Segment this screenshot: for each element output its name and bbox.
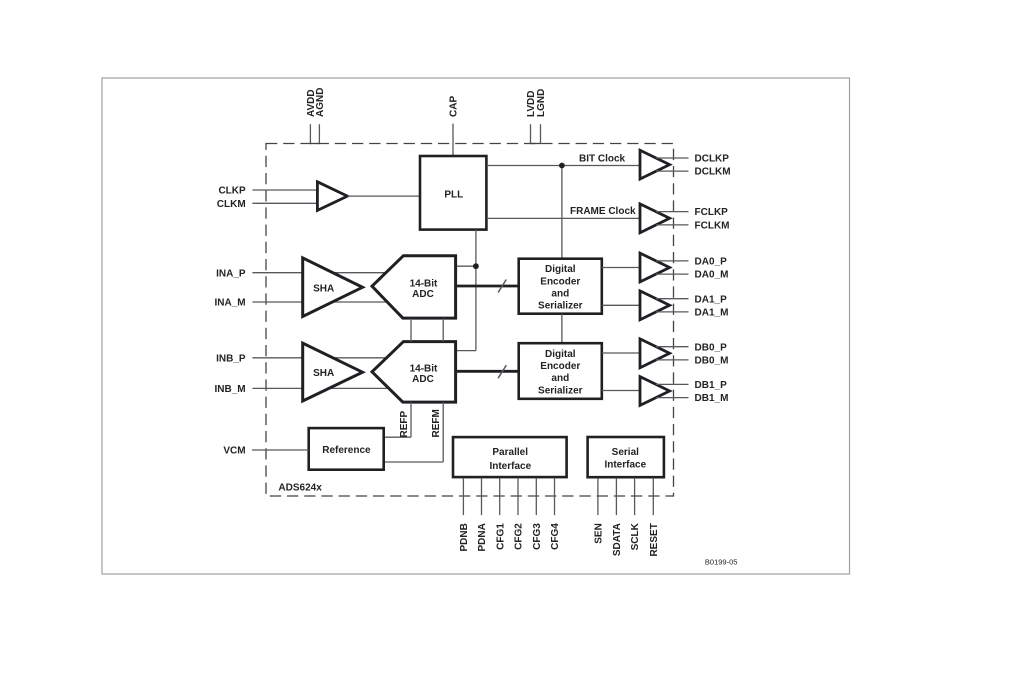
DCLK output buffer [640, 150, 670, 179]
wire DB0_M [656, 359, 689, 361]
svg-text:INB_P: INB_P [216, 353, 246, 364]
svg-text:DCLKM: DCLKM [695, 167, 731, 178]
svg-text:Serial: Serial [612, 447, 639, 458]
wire PLL to ADC clock (vertical) [475, 230, 477, 351]
pin CFG1 [499, 478, 501, 515]
PLL block [420, 156, 486, 230]
pin SDATA [615, 478, 617, 515]
wire DA0_P [656, 260, 689, 262]
wire SHA A to ADC A (p) [330, 272, 392, 274]
outer frame [102, 78, 850, 574]
svg-text:Digital: Digital [545, 264, 576, 275]
bus slash A [498, 280, 506, 293]
svg-text:DA1_M: DA1_M [695, 308, 729, 319]
net REFP rail (below ADC B) [410, 402, 412, 437]
wire buffer to PLL [347, 195, 420, 197]
net REFP rail (between ADCs) [410, 318, 412, 342]
wire encoder B to DB0 buffer [602, 352, 640, 354]
ADC A [372, 256, 456, 318]
ADC B [372, 342, 456, 403]
svg-text:DB0_M: DB0_M [695, 356, 729, 367]
wire SHA B to ADC B (p) [330, 357, 392, 359]
SHA A [303, 258, 363, 317]
svg-text:SEN: SEN [594, 523, 605, 544]
svg-text:PDNA: PDNA [477, 523, 488, 551]
svg-text:ADC: ADC [412, 374, 434, 385]
svg-text:INA_M: INA_M [214, 298, 245, 309]
svg-text:CFG2: CFG2 [514, 523, 525, 550]
svg-text:SDATA: SDATA [612, 523, 623, 556]
svg-text:BIT Clock: BIT Clock [579, 154, 626, 165]
svg-text:REFP: REFP [399, 411, 410, 438]
svg-text:REFM: REFM [431, 409, 442, 437]
svg-text:ADC: ADC [412, 289, 434, 300]
wire INA_M [252, 301, 302, 303]
svg-text:CFG3: CFG3 [532, 523, 543, 550]
wire DB0_P [656, 346, 689, 348]
svg-text:CLKP: CLKP [218, 186, 246, 197]
wire encoder B to DB1 buffer [602, 390, 640, 392]
svg-text:Interface: Interface [604, 460, 646, 471]
SHA B [303, 343, 363, 401]
pin AVDD stub [309, 124, 311, 143]
svg-text:Digital: Digital [545, 349, 576, 360]
wire encoder A to encoder B clock [561, 314, 563, 344]
svg-text:14-Bit: 14-Bit [410, 364, 438, 375]
svg-text:VCM: VCM [223, 446, 245, 457]
svg-text:Serializer: Serializer [538, 301, 583, 312]
net REFM rail (between ADCs) [442, 318, 444, 342]
svg-text:Encoder: Encoder [540, 276, 580, 287]
wire DB1_M [656, 397, 689, 399]
pin PDNA [481, 478, 483, 515]
svg-text:Reference: Reference [322, 445, 371, 456]
svg-text:PLL: PLL [444, 189, 463, 200]
svg-text:ADS624x: ADS624x [278, 483, 322, 494]
pin LGND stub [540, 124, 542, 143]
wire SHA B to ADC B (m) [330, 387, 392, 389]
net REFM rail (below ADC B) [442, 402, 444, 462]
svg-text:DA1_P: DA1_P [695, 294, 728, 305]
Serial Interface block [588, 437, 664, 477]
junction BIT clock [559, 163, 565, 169]
svg-text:DA0_P: DA0_P [695, 257, 728, 268]
DB0 output buffer [640, 339, 670, 368]
svg-text:and: and [551, 373, 569, 384]
svg-text:DB0_P: DB0_P [695, 342, 728, 353]
Digital Encoder and Serializer A [519, 259, 602, 314]
wire DCLKP [656, 157, 689, 159]
wire encoder A to DA0 buffer [602, 267, 640, 269]
pin LVDD stub [530, 124, 532, 143]
wire CLKM [252, 202, 318, 204]
wire INB_P [252, 357, 302, 359]
svg-text:SHA: SHA [313, 283, 334, 294]
svg-text:PDNB: PDNB [459, 523, 470, 551]
wire clock to ADC A [456, 265, 476, 267]
svg-text:CFG1: CFG1 [495, 523, 506, 550]
Parallel Interface block [453, 437, 567, 477]
pin CFG4 [554, 478, 556, 515]
DA1 output buffer [640, 291, 670, 320]
svg-text:AGND: AGND [315, 88, 326, 117]
DA0 output buffer [640, 253, 670, 282]
wire CLKP [252, 189, 318, 191]
wire BIT clock to encoder A [561, 166, 563, 259]
wire FRAME clock [486, 217, 640, 219]
wire SHA A to ADC A (m) [330, 301, 392, 303]
svg-text:LGND: LGND [536, 89, 547, 117]
wire INA_P [252, 272, 302, 274]
wire INB_M [252, 387, 302, 389]
pin AGND stub [318, 124, 320, 143]
wire VCM [252, 449, 309, 451]
pin CAP stub [452, 124, 454, 156]
pin PDNB [462, 478, 464, 515]
pin CFG2 [517, 478, 519, 515]
pin SCLK [634, 478, 636, 515]
svg-text:B0199-05: B0199-05 [705, 557, 738, 566]
svg-text:CFG4: CFG4 [550, 523, 561, 550]
svg-text:DCLKP: DCLKP [695, 154, 730, 165]
wire FCLKM [656, 224, 689, 226]
wire REFP to Reference [384, 436, 411, 438]
junction ADC clock [473, 263, 479, 269]
wire BIT clock [486, 165, 640, 167]
svg-text:DB1_P: DB1_P [695, 380, 728, 391]
svg-text:FCLKP: FCLKP [695, 207, 729, 218]
wire REFM to Reference [384, 461, 444, 463]
bus ADC A to encoder A [456, 285, 519, 288]
svg-text:INA_P: INA_P [216, 268, 246, 279]
svg-text:RESET: RESET [649, 523, 660, 556]
wire DA1_P [656, 298, 689, 300]
pin SEN [597, 478, 599, 515]
svg-text:Interface: Interface [489, 461, 531, 472]
svg-text:and: and [551, 288, 569, 299]
svg-text:SHA: SHA [313, 368, 334, 379]
svg-text:DA0_M: DA0_M [695, 270, 729, 281]
wire DA0_M [656, 273, 689, 275]
boundary dash under LVDD/LGND [530, 143, 541, 145]
pin CFG3 [535, 478, 537, 515]
svg-text:DB1_M: DB1_M [695, 393, 729, 404]
svg-text:Parallel: Parallel [492, 447, 528, 458]
wire clock to ADC B [456, 350, 476, 352]
svg-text:Encoder: Encoder [540, 361, 580, 372]
Reference block [309, 428, 384, 470]
svg-text:INB_M: INB_M [214, 384, 245, 395]
svg-text:FCLKM: FCLKM [695, 221, 730, 232]
FCLK output buffer [640, 204, 670, 233]
wire DCLKM [656, 170, 689, 172]
boundary dash under AVDD/AGND [310, 143, 320, 145]
svg-text:CLKM: CLKM [217, 199, 246, 210]
clock input buffer [317, 182, 347, 211]
bus ADC B to encoder B [456, 370, 519, 373]
Digital Encoder and Serializer B [519, 343, 602, 399]
chip boundary (dashed) [266, 144, 674, 497]
wire encoder A to DA1 buffer [602, 304, 640, 306]
svg-text:Serializer: Serializer [538, 385, 583, 396]
svg-text:CAP: CAP [449, 96, 460, 117]
bus slash B [498, 365, 506, 378]
svg-text:14-Bit: 14-Bit [410, 279, 438, 290]
svg-text:SCLK: SCLK [630, 522, 641, 550]
wire DB1_P [656, 383, 689, 385]
DB1 output buffer [640, 377, 670, 406]
pin RESET [652, 478, 654, 515]
svg-text:FRAME Clock: FRAME Clock [570, 206, 636, 217]
wire FCLKP [656, 211, 689, 213]
wire DA1_M [656, 311, 689, 313]
